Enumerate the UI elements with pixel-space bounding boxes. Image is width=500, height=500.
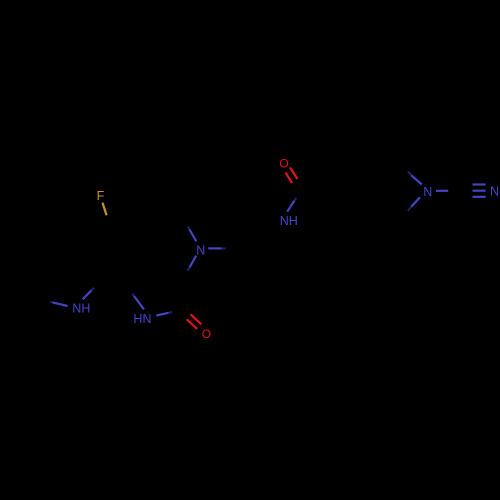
svg-text:NH: NH [72, 302, 90, 316]
svg-text:O: O [202, 327, 211, 341]
svg-text:NH: NH [280, 214, 298, 228]
svg-text:F: F [97, 189, 105, 203]
svg-text:O: O [279, 157, 288, 171]
svg-text:HN: HN [133, 312, 151, 326]
svg-text:N: N [423, 185, 432, 199]
svg-text:N: N [196, 243, 205, 257]
svg-text:N: N [490, 184, 499, 198]
